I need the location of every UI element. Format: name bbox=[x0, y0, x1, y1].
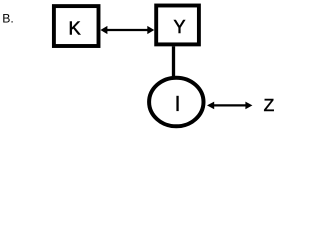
arrow I-Z (double headed) bbox=[207, 102, 252, 110]
svg-text:K: K bbox=[69, 19, 81, 39]
box Y bbox=[156, 6, 199, 45]
circle I bbox=[149, 78, 203, 127]
arrow K-Y (double headed) bbox=[100, 26, 154, 34]
svg-text:Z: Z bbox=[264, 95, 275, 115]
svg-text:B.: B. bbox=[2, 12, 14, 26]
label I bbox=[176, 96, 178, 111]
wire Y to I bbox=[172, 46, 175, 80]
svg-text:Y: Y bbox=[173, 17, 185, 37]
box K bbox=[54, 6, 99, 46]
